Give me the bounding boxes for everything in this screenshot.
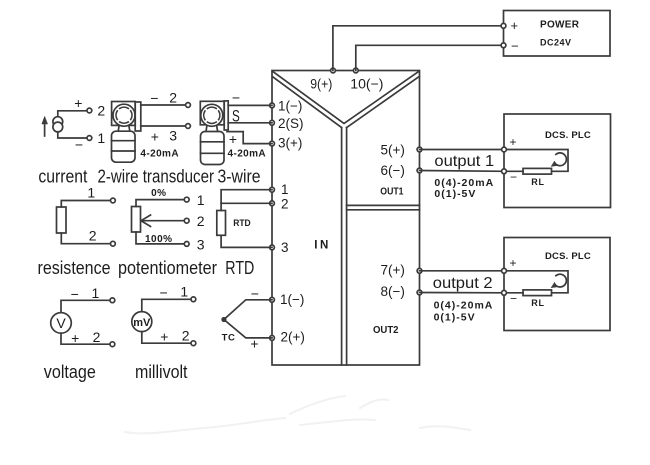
voltage source V1	[51, 313, 72, 334]
svg-text:−: −	[150, 90, 158, 106]
thermocouple TC1 junction dot	[221, 317, 226, 322]
label 1 resistence	[87, 185, 95, 201]
svg-text:3: 3	[197, 237, 205, 253]
label - power	[511, 39, 519, 54]
wire output1 minus	[420, 170, 505, 173]
wire rtd to 2	[221, 202, 272, 204]
label - tc	[251, 286, 259, 302]
terminal dcs2 +	[502, 268, 507, 273]
wire rtd bottom to 3	[221, 235, 272, 247]
divider vertical left line	[341, 128, 343, 365]
wire pot top	[136, 200, 187, 207]
svg-text:TC: TC	[222, 333, 236, 344]
pin label 7(+)	[381, 263, 405, 278]
faint artifact smudge left	[125, 396, 470, 433]
label 2 current	[97, 103, 105, 119]
terminal 2-wire 3	[186, 124, 191, 129]
svg-text:mV: mV	[133, 317, 151, 329]
svg-text:millivolt: millivolt	[135, 362, 188, 382]
caption potentiometer	[118, 257, 217, 278]
terminal millivolt 1	[191, 297, 196, 302]
label 1 voltage	[92, 285, 100, 301]
wire millivolt top	[142, 299, 194, 311]
svg-text:S: S	[232, 106, 240, 125]
label + tc	[250, 336, 258, 352]
value 0(4)-20mA out1	[434, 177, 494, 189]
svg-text:+: +	[510, 256, 517, 270]
value 0(1)-5V out2	[434, 311, 476, 323]
svg-text:+: +	[511, 18, 519, 33]
label + dcs1	[510, 135, 517, 149]
svg-text:2: 2	[281, 196, 289, 211]
label - millivolt	[160, 285, 168, 301]
svg-text:POWER: POWER	[540, 19, 580, 30]
divider V lower-right	[347, 77, 420, 128]
terminal 3 rtd	[270, 245, 275, 250]
label IN	[314, 239, 331, 251]
terminal 2(+) tc	[270, 336, 275, 341]
svg-text:1: 1	[87, 185, 95, 201]
svg-text:2(S): 2(S)	[278, 116, 304, 131]
terminal 2(S)	[270, 120, 275, 125]
terminal 10(-)	[353, 68, 358, 73]
transducer 2-wire TX1	[112, 102, 141, 163]
svg-text:5(+): 5(+)	[381, 142, 405, 157]
wire voltage top	[61, 300, 112, 312]
svg-text:output 2: output 2	[433, 275, 493, 292]
caption 2-wire transducer	[98, 166, 215, 187]
terminal power -	[501, 43, 506, 48]
label 2 voltage	[93, 329, 101, 345]
label 0%	[151, 188, 166, 199]
wire power + to terminal 9	[333, 26, 504, 71]
wire pot wiper	[141, 215, 187, 226]
svg-text:10(−): 10(−)	[350, 76, 383, 91]
millivolt source V2	[132, 312, 152, 332]
svg-text:+: +	[229, 131, 237, 147]
label S 3wire	[232, 106, 240, 125]
svg-text:−: −	[251, 286, 259, 302]
wire tc lower	[224, 320, 272, 338]
caption millivolt	[135, 362, 188, 382]
label OUT1	[380, 186, 404, 197]
label - 2wire	[150, 90, 158, 106]
wire rl2 to minus	[504, 292, 523, 294]
svg-text:6(−): 6(−)	[381, 163, 405, 178]
terminal current 1	[87, 136, 92, 141]
svg-text:7(+): 7(+)	[381, 263, 405, 278]
svg-text:1(−): 1(−)	[278, 98, 302, 113]
terminal dcs1 +	[502, 147, 507, 152]
caption voltage	[44, 362, 96, 382]
wire resistence top	[61, 201, 113, 208]
svg-text:2: 2	[97, 103, 105, 119]
divider V upper-left	[272, 71, 343, 123]
svg-text:3: 3	[281, 240, 289, 255]
load loop 1	[504, 150, 568, 172]
svg-text:3-wire: 3-wire	[218, 166, 261, 187]
svg-text:RTD: RTD	[233, 218, 251, 229]
svg-text:IN: IN	[314, 239, 331, 251]
label 3 pot	[197, 237, 205, 253]
label OUT2	[373, 325, 399, 336]
svg-text:8(−): 8(−)	[381, 284, 405, 299]
svg-text:1: 1	[281, 182, 289, 197]
isolator block outline U1	[272, 71, 420, 366]
svg-text:V: V	[56, 315, 66, 331]
terminal 3(+)	[270, 141, 275, 146]
label RTD value	[233, 218, 251, 229]
label output 2	[433, 275, 493, 292]
label + power	[511, 18, 519, 33]
resistor RL1	[523, 168, 552, 174]
current loop arrow 2	[551, 274, 566, 288]
svg-text:OUT1: OUT1	[380, 186, 404, 197]
svg-text:RL: RL	[531, 298, 545, 308]
label 2 millivolt	[182, 328, 190, 344]
svg-text:100%: 100%	[145, 234, 173, 245]
svg-text:2: 2	[182, 328, 190, 344]
value 0(1)-5V out1	[434, 188, 476, 200]
terminal 5(+)	[417, 147, 422, 152]
label - dcs2	[510, 292, 517, 306]
svg-text:RL: RL	[531, 177, 545, 187]
pin label 2 rtd	[281, 196, 289, 211]
wire power - to terminal 10	[356, 45, 504, 70]
terminal power +	[501, 23, 506, 28]
svg-text:2: 2	[93, 329, 101, 345]
svg-text:3: 3	[169, 128, 177, 144]
label 2 resistence	[89, 228, 97, 244]
svg-text:−: −	[160, 285, 168, 301]
caption resistence	[38, 257, 111, 278]
terminal pot 2	[184, 218, 189, 223]
svg-text:2(+): 2(+)	[281, 330, 305, 345]
svg-text:1: 1	[180, 284, 188, 300]
svg-text:RTD: RTD	[225, 257, 254, 278]
label 2 pot	[197, 213, 205, 229]
svg-text:−: −	[75, 137, 83, 153]
label - voltage	[71, 286, 79, 302]
label + 2wire	[151, 128, 159, 144]
resistor R1 (resistence)	[57, 207, 67, 233]
svg-text:0%: 0%	[151, 188, 166, 199]
pin label 1(-) top	[278, 98, 302, 113]
svg-text:+: +	[151, 128, 159, 144]
wire rl1 to minus	[504, 170, 523, 172]
label - dcs1	[510, 170, 517, 184]
svg-text:1: 1	[92, 285, 100, 301]
label RL1	[531, 177, 545, 187]
terminal dcs2 -	[502, 290, 507, 295]
label mV	[133, 317, 151, 329]
svg-text:+: +	[250, 336, 258, 352]
transducer 3-wire TX2	[200, 101, 228, 165]
divider vertical right line	[346, 128, 348, 365]
terminal 8(-)	[417, 290, 422, 295]
terminal 2-wire 2	[186, 103, 191, 108]
svg-text:−: −	[71, 286, 79, 302]
terminal 9(+)	[331, 68, 336, 73]
label 3 2wire	[169, 128, 177, 144]
pin label 2(+) tc	[281, 330, 305, 345]
svg-text:2-wire transducer: 2-wire transducer	[98, 166, 215, 187]
svg-text:1: 1	[97, 130, 105, 146]
label DC24V	[540, 37, 572, 47]
label + voltage	[71, 330, 79, 346]
terminal 6(-)	[417, 168, 422, 173]
value 4-20mA 2wire	[140, 149, 179, 160]
svg-text:0(1)-5V: 0(1)-5V	[434, 311, 476, 323]
svg-text:2: 2	[197, 213, 205, 229]
caption RTD	[225, 257, 254, 278]
caption current	[38, 166, 87, 187]
wire output1 plus	[420, 149, 505, 151]
divider OUT1/OUT2 lower line	[347, 209, 420, 211]
label 100%	[145, 234, 173, 245]
label output 1	[434, 153, 494, 170]
terminal dcs1 -	[502, 169, 507, 174]
svg-text:+: +	[510, 135, 517, 149]
value 0(4)-20mA out2	[434, 299, 494, 311]
svg-text:−: −	[232, 90, 240, 106]
label 2 2wire	[169, 90, 177, 106]
terminal resistence 2	[111, 241, 116, 246]
DCS PLC box 1	[504, 114, 611, 208]
resistor RL2	[523, 290, 552, 296]
pin label 1(-) tc	[280, 292, 304, 307]
wire current source top	[58, 111, 90, 117]
label + 3wire	[229, 131, 237, 147]
svg-text:+: +	[160, 329, 168, 345]
wire 2-wire top	[141, 104, 188, 106]
terminal voltage 1	[110, 298, 115, 303]
svg-text:0(1)-5V: 0(1)-5V	[434, 188, 476, 200]
label RL2	[531, 298, 545, 308]
wire tc upper	[224, 300, 272, 320]
label V	[56, 315, 66, 331]
pin label 3 rtd	[281, 240, 289, 255]
wire 2-wire bottom	[141, 125, 188, 127]
wire current source bottom	[58, 132, 90, 138]
pin label 3(+)	[278, 135, 302, 150]
svg-text:0(4)-20mA: 0(4)-20mA	[434, 299, 494, 311]
wire resistence bottom	[61, 233, 113, 244]
label - current	[75, 137, 83, 153]
divider V upper-right	[344, 71, 419, 123]
label DCS. PLC 1	[545, 130, 591, 141]
svg-text:2: 2	[169, 90, 177, 106]
label 1 current	[97, 130, 105, 146]
terminal millivolt 2	[191, 341, 196, 346]
label 1 millivolt	[180, 284, 188, 300]
pin label 2(S)	[278, 116, 304, 131]
RTD sensor RT1	[217, 211, 226, 236]
svg-text:DCS. PLC: DCS. PLC	[545, 251, 591, 262]
pin label 1 rtd	[281, 182, 289, 197]
label - 3wire	[232, 90, 240, 106]
pin label 10(-)	[350, 76, 383, 91]
terminal pot 1	[184, 197, 189, 202]
svg-text:1(−): 1(−)	[280, 292, 304, 307]
pin label 5(+)	[381, 142, 405, 157]
svg-text:voltage: voltage	[44, 362, 96, 382]
wire millivolt bottom	[142, 332, 194, 344]
terminal 7(+)	[417, 268, 422, 273]
svg-text:9(+): 9(+)	[310, 76, 332, 91]
pin label 6(-)	[381, 163, 405, 178]
svg-text:4-20mA: 4-20mA	[228, 148, 267, 159]
wire output2 plus	[420, 270, 505, 272]
svg-text:OUT2: OUT2	[373, 325, 399, 336]
terminal 1(-) tc	[270, 297, 275, 302]
wire voltage bottom	[61, 333, 112, 344]
terminal 1 rtd	[270, 187, 275, 192]
svg-text:resistence: resistence	[38, 257, 111, 278]
svg-text:+: +	[71, 330, 79, 346]
label POWER	[540, 19, 580, 30]
svg-text:+: +	[74, 95, 82, 111]
divider OUT1/OUT2 upper line	[347, 204, 420, 206]
pin label 9(+)	[310, 76, 332, 91]
divider V lower-left	[272, 77, 341, 128]
svg-text:3(+): 3(+)	[278, 135, 302, 150]
svg-text:output 1: output 1	[434, 153, 494, 170]
wire 3-wire plus	[227, 132, 272, 144]
label + current	[74, 95, 82, 111]
terminal 2 rtd	[270, 201, 275, 206]
label 1 pot	[197, 192, 205, 208]
terminal voltage 2	[110, 342, 115, 347]
svg-text:potentiometer: potentiometer	[118, 257, 217, 278]
wire output2 minus	[420, 292, 505, 294]
label DCS. PLC 2	[545, 251, 591, 262]
svg-text:DC24V: DC24V	[540, 37, 572, 47]
svg-text:−: −	[511, 39, 519, 54]
DCS PLC box 2	[504, 238, 610, 331]
caption 3-wire	[218, 166, 261, 187]
terminal 1(-) top	[270, 103, 275, 108]
svg-text:2: 2	[89, 228, 97, 244]
wire rtd top to 1	[221, 190, 272, 211]
value 4-20mA 3wire	[228, 148, 267, 159]
power supply box PS1	[504, 11, 611, 57]
wire pot bottom	[136, 232, 187, 244]
terminal pot 3	[184, 242, 189, 247]
wire 3-wire S	[228, 122, 272, 124]
terminal resistence 1	[111, 198, 116, 203]
svg-text:DCS. PLC: DCS. PLC	[545, 130, 591, 141]
svg-text:current: current	[38, 166, 87, 187]
label + millivolt	[160, 329, 168, 345]
current direction arrow	[42, 117, 48, 137]
wire 3-wire minus	[228, 104, 272, 106]
terminal current 2	[87, 108, 92, 113]
svg-text:4-20mA: 4-20mA	[140, 149, 179, 160]
current source CS1	[53, 117, 63, 132]
pin label 8(-)	[381, 284, 405, 299]
svg-text:1: 1	[197, 192, 205, 208]
label + dcs2	[510, 256, 517, 270]
load loop 2	[504, 271, 568, 293]
current loop arrow 1	[551, 153, 566, 166]
label TC	[222, 333, 236, 344]
potentiometer RP1	[132, 207, 141, 233]
